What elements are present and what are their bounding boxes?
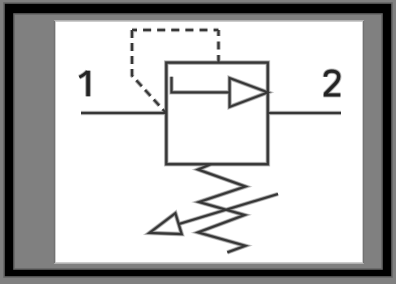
adjustment arrow shaft bbox=[179, 194, 278, 224]
spring (zigzag) bbox=[198, 164, 246, 252]
adjustment arrow head (open triangle) bbox=[149, 213, 181, 234]
pilot line (dashed), top leg bbox=[132, 29, 219, 31]
white drawing area bbox=[54, 21, 363, 263]
pilot line (dashed), right leg bbox=[218, 30, 220, 63]
internal flow path line bbox=[172, 77, 230, 93]
valve body (square) bbox=[166, 63, 267, 165]
port label 1 stem bbox=[86, 71, 90, 97]
port 2 line bbox=[268, 112, 341, 114]
port 1 line bbox=[81, 112, 166, 114]
port label 1 flag bbox=[79, 71, 87, 77]
schematic soft-edge underlay, inner halo (blur emulation, decorative) bbox=[79, 30, 341, 252]
port label 2 curve bbox=[325, 71, 339, 94]
internal arrow (open triangle) bbox=[230, 78, 268, 107]
port label 2 base bar bbox=[324, 93, 341, 96]
schematic soft-edge underlay, outer halo (blur emulation, decorative) bbox=[79, 30, 341, 252]
pilot line (dashed), left leg bbox=[132, 30, 166, 113]
